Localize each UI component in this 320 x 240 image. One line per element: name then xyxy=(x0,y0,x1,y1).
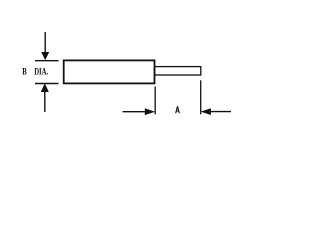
svg-text:DIA.: DIA. xyxy=(34,66,48,76)
dim B: lower arrow shaft xyxy=(44,91,46,112)
svg-text:B: B xyxy=(22,66,27,76)
dim A: right arrow shaft xyxy=(210,111,231,113)
dim B: bottom tick line xyxy=(35,83,59,85)
dim A: right arrowhead (points left) xyxy=(201,108,211,115)
dim A: left arrowhead (points right) xyxy=(145,108,155,115)
dim B: upper arrowhead (points down) xyxy=(41,52,49,60)
dim B: top tick line xyxy=(35,60,59,62)
dim A: left arrow shaft xyxy=(123,111,147,113)
pin body (large diameter) xyxy=(64,60,155,83)
dim A: right extension line xyxy=(200,80,202,114)
pin tip (small diameter), length A xyxy=(155,67,201,75)
dim B: upper arrow shaft xyxy=(44,32,46,54)
dim A: left extension line xyxy=(154,87,156,115)
dim B: lower arrowhead (points up) xyxy=(41,83,49,92)
label A xyxy=(176,106,180,113)
